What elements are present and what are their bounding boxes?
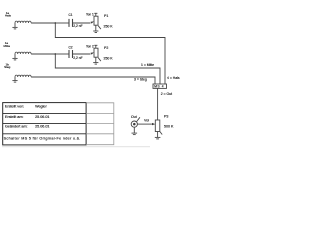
label pickup 1a Hals	[5, 11, 12, 18]
svg-text:P3: P3	[164, 115, 168, 119]
ground at jack	[132, 127, 138, 134]
wire Mitte coil to junction	[31, 53, 55, 55]
svg-text:25.06.01: 25.06.01	[35, 115, 49, 119]
junction node Mitte	[54, 53, 56, 55]
switch S1 pickup selector	[153, 84, 167, 89]
wire junction to C2	[55, 53, 68, 55]
svg-text:4 = Hals: 4 = Hals	[167, 76, 180, 80]
svg-text:Erstellt am:: Erstellt am:	[5, 115, 23, 119]
ground at P3	[155, 132, 161, 139]
svg-text:3 = Steg: 3 = Steg	[134, 77, 147, 81]
svg-text:Mitte: Mitte	[4, 44, 11, 48]
ground at pickup Steg	[12, 77, 17, 82]
output jack J1	[131, 117, 140, 127]
capacitor C2	[69, 50, 73, 58]
ground at pickup Hals	[12, 23, 17, 29]
wire Steg net to switch pin 3	[31, 77, 155, 84]
svg-text:P1: P1	[104, 14, 108, 18]
svg-text:25.06.01: 25.06.01	[35, 125, 49, 129]
svg-text:Ton 1: Ton 1	[86, 13, 94, 17]
ground at P2	[93, 57, 98, 64]
svg-text:250 K: 250 K	[104, 56, 114, 60]
svg-text:Wegler: Wegler	[35, 105, 47, 109]
svg-text:2,2 nF: 2,2 nF	[73, 56, 82, 60]
wire C2 to P2 wiper with arrow	[73, 52, 94, 54]
svg-text:Vol: Vol	[144, 119, 149, 123]
svg-text:1 = Mitte: 1 = Mitte	[141, 63, 154, 67]
scan artifact line bottom	[2, 146, 150, 148]
wire Mitte net to switch pin 1	[55, 54, 160, 84]
label pickup 1b Steg	[4, 62, 11, 69]
svg-text:250 K: 250 K	[104, 24, 114, 28]
junction node Hals	[54, 22, 56, 24]
wire jack to P3 wiper with arrow	[137, 123, 155, 125]
label pickup 1a Mitte	[4, 41, 11, 48]
svg-text:2,2 nF: 2,2 nF	[73, 24, 82, 28]
wire Hals net to switch pin 4	[55, 23, 165, 84]
potentiometer P1	[94, 13, 101, 29]
ground at P1	[93, 25, 98, 32]
pickup coil L2 Mitte	[15, 52, 31, 54]
svg-text:MS 4: MS 4	[154, 85, 164, 89]
svg-text:P2: P2	[104, 46, 108, 50]
svg-text:Erstellt von:: Erstellt von:	[5, 105, 24, 109]
svg-text:Out: Out	[131, 115, 137, 119]
svg-text:500 K: 500 K	[164, 125, 174, 129]
svg-text:Ton 2: Ton 2	[86, 45, 94, 49]
title block table	[3, 103, 86, 145]
potentiometer P2	[94, 45, 101, 61]
wire switch pin 2 to P3	[157, 88, 159, 120]
svg-text:2 = Out: 2 = Out	[161, 92, 172, 96]
wire C1 to P1 wiper with arrow	[73, 21, 94, 23]
wire junction to C1	[55, 22, 68, 24]
svg-text:Geändert am:: Geändert am:	[5, 125, 28, 129]
svg-text:C2: C2	[69, 45, 73, 49]
wire Hals coil to junction	[31, 22, 55, 24]
ground at pickup Mitte	[12, 54, 17, 60]
pickup coil L3 Steg	[15, 75, 31, 77]
svg-text:Hals: Hals	[5, 13, 12, 17]
potentiometer P3 volume	[155, 120, 162, 135]
svg-text:C1: C1	[69, 13, 73, 17]
pickup coil L1 Hals	[15, 21, 31, 23]
svg-text:Steg: Steg	[4, 65, 11, 69]
capacitor C1	[69, 19, 73, 27]
svg-text:Schalter MS 5 für Original-Fe: Schalter MS 5 für Original-Fe nder o.ä.	[4, 136, 81, 140]
